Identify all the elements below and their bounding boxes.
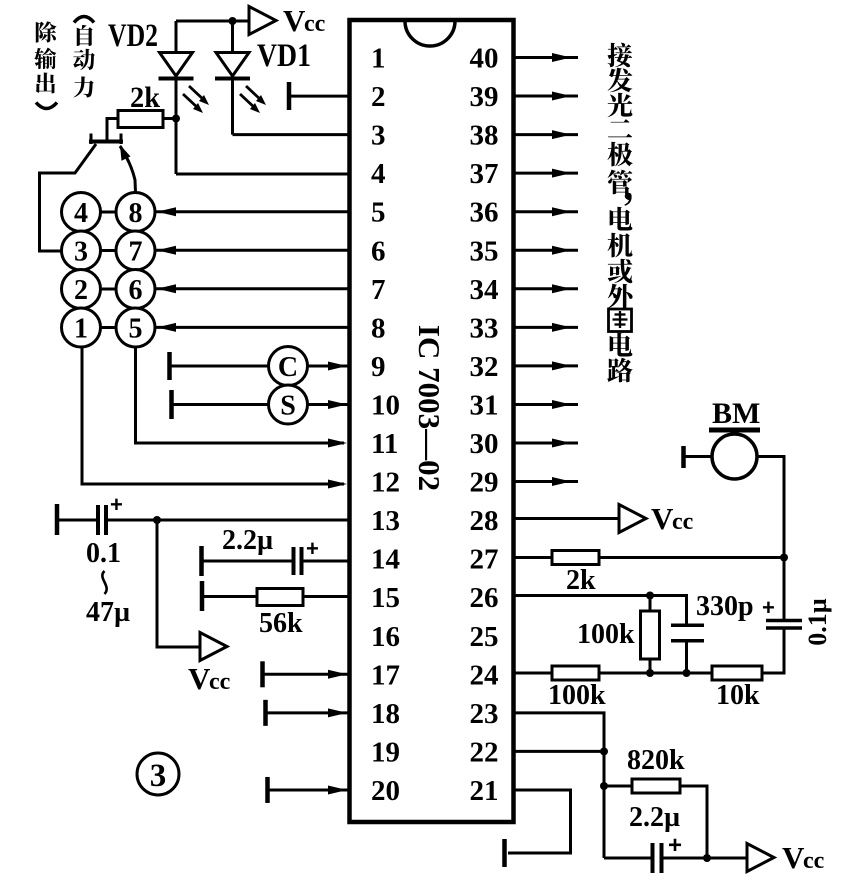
svg-text:2: 2: [371, 81, 386, 113]
power Vcc symbol left: [200, 633, 227, 661]
svg-text:3: 3: [371, 120, 386, 152]
transistor Q1 junction: [40, 134, 136, 252]
svg-text:V: V: [188, 661, 211, 696]
svg-text:+: +: [762, 595, 775, 620]
terminal bar pin 20: [265, 777, 270, 803]
svg-text:32: 32: [470, 351, 499, 383]
svg-text:cc: cc: [803, 848, 825, 874]
node junction dot pin22/23: [600, 747, 608, 755]
svg-text:10: 10: [371, 389, 400, 421]
svg-text:6: 6: [371, 235, 386, 267]
svg-text:27: 27: [470, 544, 499, 576]
wire bar to capacitor 2.2u: [203, 560, 292, 563]
node junction dot 820k left: [600, 782, 608, 790]
LED VD1: [215, 21, 250, 135]
terminal bar pin 21: [502, 839, 507, 867]
figure number 3: [137, 753, 179, 795]
svg-text:100k: 100k: [548, 680, 606, 711]
wire pin 22: [514, 750, 604, 753]
svg-text:1: 1: [371, 43, 386, 75]
svg-text:100k: 100k: [577, 619, 635, 650]
svg-text:13: 13: [371, 505, 400, 537]
capacitor 0.1u polarized: [762, 558, 802, 629]
terminal bar pin 2: [287, 82, 292, 110]
wire pin 34 output arrow: [514, 284, 578, 293]
svg-text:cc: cc: [209, 669, 231, 695]
terminal bar pin 17: [260, 661, 265, 687]
terminal bar pin 18: [263, 700, 268, 726]
svg-text:26: 26: [470, 582, 499, 614]
wire pin 28 to Vcc: [514, 517, 619, 520]
wire pin 26: [514, 596, 687, 624]
svg-text:23: 23: [470, 698, 499, 730]
wire cap to Vcc: [663, 857, 747, 860]
resistor 820k: [632, 779, 680, 793]
node junction dot 100k top: [646, 592, 654, 600]
svg-text:35: 35: [470, 235, 499, 267]
svg-text:3: 3: [74, 237, 88, 268]
wire pin 27: [514, 556, 552, 559]
svg-text:820k: 820k: [627, 745, 685, 776]
wire key 1 to pin 12: [82, 347, 347, 489]
wire key pair 1-5: [101, 326, 117, 329]
svg-text:IC 7003—02: IC 7003—02: [412, 325, 447, 491]
wire pin 29 output arrow: [514, 477, 578, 486]
svg-text:29: 29: [470, 467, 499, 499]
wire bar to pin 17 with arrow: [265, 670, 351, 679]
terminal bar pin 13: [55, 504, 60, 535]
wire pin 31 output arrow: [514, 400, 578, 409]
wire VD2 cathode to pin 4: [176, 173, 351, 176]
svg-text:37: 37: [470, 158, 499, 190]
wire pin 37 output arrow: [514, 169, 578, 178]
svg-text:VD2: VD2: [108, 18, 158, 54]
wire key 5 to pin 11: [136, 347, 348, 448]
node junction dot 820k right: [703, 854, 711, 862]
wire pin 38 output arrow: [514, 130, 578, 139]
wire pin 6 to key 7 with arrow: [155, 246, 351, 255]
key contact node 5: [116, 308, 155, 347]
wire bar to C: [171, 365, 269, 368]
resistor 2k pin 27: [552, 551, 599, 565]
svg-text:12: 12: [371, 467, 400, 499]
node junction dot 100k bottom: [646, 669, 654, 677]
wire key pair 4-8: [101, 211, 117, 214]
svg-text:+: +: [306, 536, 319, 561]
svg-text:4: 4: [74, 198, 88, 229]
LED VD2 light arrows: [183, 86, 209, 113]
key contact node 1: [62, 308, 101, 347]
svg-text:V: V: [283, 3, 306, 38]
svg-text:31: 31: [470, 389, 499, 421]
svg-text:V: V: [782, 840, 805, 875]
svg-text:5: 5: [371, 197, 386, 229]
svg-text:+: +: [668, 832, 682, 859]
wire pin 23 down: [514, 713, 604, 858]
wire mic to audio node: [757, 457, 784, 558]
wire pin 7 to key 6 with arrow: [155, 284, 351, 293]
resistor 56k: [257, 589, 303, 606]
wire to 820k: [604, 785, 632, 788]
capacitor C1 0.1-47u polarized: [98, 492, 123, 535]
resistor 100k pin 24: [552, 666, 599, 680]
key contact node 2: [62, 270, 101, 309]
wire bar to 56k: [204, 595, 257, 598]
key contact node 8: [116, 193, 155, 232]
pin numbers 40-21 right column: [470, 43, 499, 807]
svg-text:C: C: [278, 352, 298, 383]
wire bar to mic: [685, 455, 712, 458]
svg-text:25: 25: [470, 621, 499, 653]
wire pin 5 to key 8 with arrow: [155, 207, 351, 216]
key contact node 3: [62, 231, 101, 270]
svg-text:9: 9: [371, 351, 386, 383]
svg-text:4: 4: [371, 158, 386, 190]
wire pin 39 output arrow: [514, 92, 578, 101]
svg-text:cc: cc: [672, 509, 694, 535]
contact C: [269, 347, 308, 386]
wire 56k to pin 15: [303, 595, 351, 598]
wire bar to S: [173, 403, 269, 406]
svg-text:40: 40: [470, 43, 499, 75]
wire pin 24: [514, 672, 552, 675]
svg-text:10k: 10k: [716, 680, 760, 711]
wire pin 32 output arrow: [514, 361, 578, 370]
svg-text:36: 36: [470, 197, 499, 229]
svg-text:39: 39: [470, 81, 499, 113]
wire pin 35 output arrow: [514, 246, 578, 255]
annotation: connect LEDs, motor or peripheral circuits: [607, 43, 633, 383]
svg-text:47µ: 47µ: [86, 597, 130, 628]
wire pin 8 to key 5 with arrow: [155, 323, 351, 332]
terminal bar for S contact: [169, 390, 174, 419]
power Vcc symbol top: [249, 7, 276, 35]
terminal bar pin 14: [199, 546, 204, 576]
svg-text:34: 34: [470, 274, 499, 306]
svg-text:330p: 330p: [696, 591, 754, 622]
terminal bar for C contact: [167, 352, 172, 380]
wire pin 40 output arrow: [514, 53, 578, 62]
svg-text:16: 16: [371, 621, 400, 653]
wire bar to pin 2: [291, 95, 351, 98]
microphone BM: [709, 430, 760, 479]
LED VD1 light arrows: [240, 86, 266, 113]
svg-text:18: 18: [371, 698, 400, 730]
svg-text:7: 7: [371, 274, 386, 306]
svg-text:14: 14: [371, 544, 400, 576]
wire pin 21: [508, 790, 571, 853]
wire 820k right down: [680, 786, 707, 858]
capacitor 330p: [671, 625, 704, 673]
svg-text:BM: BM: [712, 397, 760, 430]
wire 2k to audio node: [599, 556, 784, 559]
svg-text:2.2µ: 2.2µ: [629, 802, 680, 833]
node junction dot 2k/VD2: [172, 115, 180, 123]
svg-text:8: 8: [371, 312, 386, 344]
resistor 10k: [712, 666, 762, 680]
annotation: (automatic power-off output): [34, 17, 95, 109]
wire bar to capacitor C1: [59, 519, 96, 522]
svg-text:15: 15: [371, 582, 400, 614]
svg-text:19: 19: [371, 736, 400, 768]
wire C1 to pin 13: [108, 519, 351, 522]
wire 100k to 10k: [599, 672, 712, 675]
wire key pair 2-6: [101, 288, 117, 291]
wire to 2.2u cap: [604, 857, 651, 860]
svg-text:V: V: [651, 501, 674, 536]
svg-text:2.2µ: 2.2µ: [222, 525, 273, 556]
wire pin 33 output arrow: [514, 323, 578, 332]
wire 2k to transistor base: [107, 119, 118, 140]
capacitor 2.2u polarized: [294, 536, 319, 575]
node junction dot pin13: [153, 516, 161, 524]
node junction dot at VD1 anode: [229, 17, 237, 25]
svg-text:56k: 56k: [259, 608, 303, 639]
svg-text:cc: cc: [304, 11, 326, 37]
node junction dot audio: [780, 554, 788, 562]
wire S to pin 10 with arrow: [308, 400, 351, 409]
svg-text:6: 6: [129, 275, 143, 306]
terminal bar mic left: [681, 446, 686, 468]
svg-text:0.1: 0.1: [86, 538, 121, 569]
svg-text:2k: 2k: [566, 565, 596, 596]
svg-text:20: 20: [371, 775, 400, 807]
wire VD2 top to Vcc node: [176, 20, 249, 23]
key contact node 4: [62, 193, 101, 232]
label tilde: [102, 571, 106, 594]
op-amp U1 IC 7003-02 DIP-40 body: [350, 20, 514, 822]
svg-text:30: 30: [470, 428, 499, 460]
capacitor 2.2u bottom polarized: [653, 832, 683, 873]
wire bar to pin 18 with arrow: [268, 708, 351, 717]
svg-text:3: 3: [150, 758, 167, 794]
node junction dot 330p bottom: [683, 669, 691, 677]
wire 10k to 0.1u cap: [762, 629, 784, 673]
resistor 100k vertical: [641, 596, 660, 674]
wire pin 36 output arrow: [514, 207, 578, 216]
svg-text:24: 24: [470, 659, 499, 691]
svg-text:S: S: [280, 391, 296, 422]
wire bar to pin 20 with arrow: [270, 785, 351, 794]
LED VD2: [159, 21, 194, 174]
pin numbers 1-20 left column: [371, 43, 400, 807]
svg-text:21: 21: [470, 775, 499, 807]
svg-text:33: 33: [470, 312, 499, 344]
wire cap to pin 14: [303, 560, 351, 563]
svg-text:38: 38: [470, 120, 499, 152]
wire pin 30 output arrow: [514, 439, 578, 448]
wire C to pin 9 with arrow: [308, 362, 351, 371]
resistor 2k: [118, 111, 176, 128]
svg-text:5: 5: [129, 314, 143, 345]
key contact node 6: [116, 270, 155, 309]
svg-text:2: 2: [74, 275, 88, 306]
svg-text:VD1: VD1: [257, 38, 311, 74]
svg-text:11: 11: [371, 428, 398, 460]
wire key pair 3-7: [101, 249, 117, 252]
terminal bar pin 15: [200, 581, 205, 611]
svg-text:+: +: [110, 492, 123, 517]
key contact node 7: [116, 231, 155, 270]
svg-text:22: 22: [470, 736, 499, 768]
svg-text:28: 28: [470, 505, 499, 537]
power Vcc symbol bottom right: [747, 844, 774, 872]
svg-text:7: 7: [129, 237, 143, 268]
power Vcc symbol pin 28: [619, 505, 646, 533]
svg-text:8: 8: [129, 198, 143, 229]
wire VD1 cathode to pin 3: [233, 133, 351, 136]
svg-text:1: 1: [74, 314, 88, 345]
wire to Vcc left: [157, 520, 200, 647]
svg-text:0.1µ: 0.1µ: [803, 598, 832, 646]
svg-text:17: 17: [371, 659, 400, 691]
contact S: [269, 385, 308, 424]
